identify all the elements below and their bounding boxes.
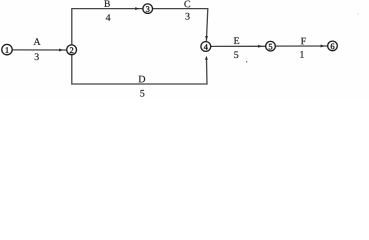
label F [301, 38, 306, 45]
label 5 (duration of D) [140, 90, 144, 97]
label C [184, 1, 190, 8]
arrowhead F [321, 45, 325, 48]
stray comma mark [246, 61, 247, 63]
faint scan speck [357, 13, 358, 14]
arrowhead C [205, 36, 208, 40]
node 2 [67, 45, 77, 55]
label E [234, 37, 239, 44]
label A [33, 38, 40, 45]
node 5 [266, 41, 276, 51]
arrowhead B [135, 7, 139, 10]
wire C (node 3 right, corner, down to node 4) [153, 9, 208, 42]
label 4 (duration of B) [106, 14, 111, 21]
arrowhead A [59, 49, 63, 52]
label 5 (duration of E) [234, 51, 238, 58]
label B [104, 0, 110, 6]
node 1 [2, 44, 12, 54]
wire E (node 4 to node 5) [211, 45, 266, 47]
node 6 [328, 41, 338, 51]
label 3 (duration of A) [35, 53, 39, 60]
label 3 (duration of C) [185, 13, 189, 20]
wire B (node 2 up and right to node 3) [72, 9, 143, 45]
label D [139, 76, 146, 83]
arrowhead E [258, 45, 262, 48]
node 4 [201, 42, 211, 52]
node 3 [143, 4, 153, 14]
wire F (node 5 to node 6) [275, 45, 327, 47]
wire D (node 2 down, bottom rail, up to node 4) [72, 55, 207, 84]
label 1 (duration of F) [300, 51, 304, 58]
arrowhead D [205, 56, 208, 60]
wire A (node 1 to node 2) [12, 49, 66, 51]
